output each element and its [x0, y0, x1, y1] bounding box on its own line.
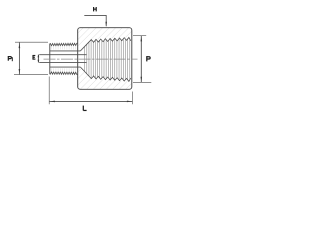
dimension L extension line right [132, 92, 134, 105]
counterbore line top [50, 50, 81, 52]
label P1 [8, 56, 12, 61]
dimension P1 line [18, 43, 20, 75]
dimension E arrow up [38, 54, 40, 57]
dimension E arrow down [38, 60, 40, 63]
male thread top profile (sawtooth) [50, 43, 78, 46]
counterbore line bottom [50, 66, 81, 68]
dimension P1 arrow down [19, 69, 21, 74]
dimension L extension line left [48, 77, 50, 105]
label L [83, 106, 86, 111]
male thread flank lines (faint) [52, 46, 76, 71]
male stub end face [49, 44, 51, 75]
label P [147, 56, 150, 61]
dimension L arrow right [127, 101, 132, 103]
dimension L arrow left [50, 101, 55, 103]
female thread top profile (sawtooth) [81, 37, 131, 51]
dimension P1 extension line top [15, 41, 48, 43]
label E [33, 55, 36, 60]
bore line top [39, 54, 86, 56]
dimension P arrow up [141, 37, 143, 42]
male thread bottom profile (sawtooth) [50, 72, 78, 75]
dimension H arrowhead [105, 22, 107, 27]
bore line bottom [39, 61, 86, 63]
body outline stroke [78, 28, 132, 90]
dimension H leader line [84, 15, 106, 26]
dimension E line [37, 55, 39, 63]
centerline [44, 58, 138, 60]
dimension P1 arrow up [19, 43, 21, 48]
dimension P arrow down [141, 77, 143, 82]
dimension P extension line bottom [133, 81, 151, 83]
dimension P extension line top [133, 35, 146, 37]
dimension P line [140, 36, 142, 82]
label H [93, 7, 96, 11]
female thread flank lines [85, 38, 130, 80]
body hex outline (hatched section) [78, 28, 132, 90]
dimension P1 extension line bottom [14, 74, 48, 76]
female thread bottom profile (sawtooth) [81, 67, 131, 81]
dimension L line [50, 100, 133, 102]
cavity interior (white) [78, 37, 131, 81]
